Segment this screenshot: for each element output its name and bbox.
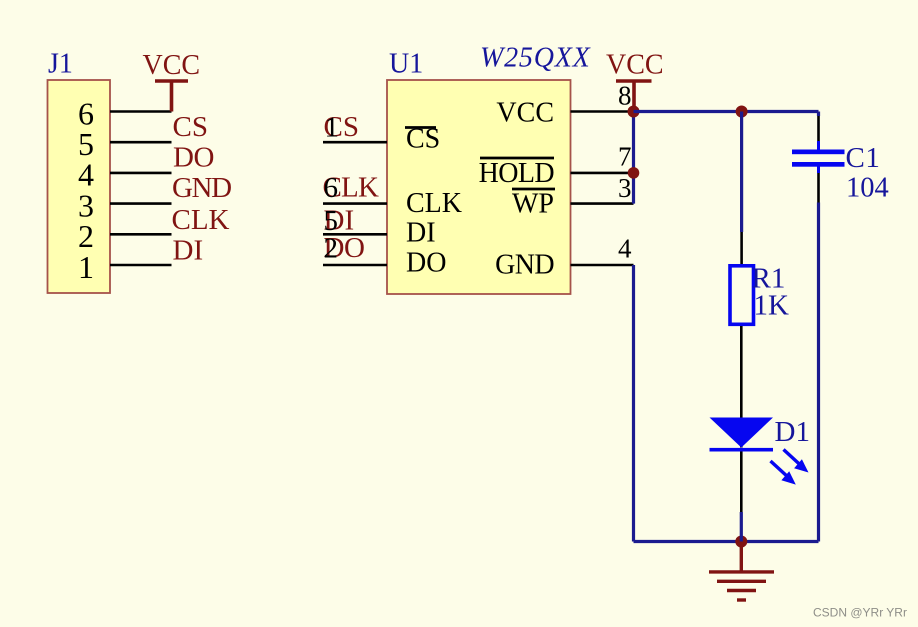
svg-text:DO: DO: [173, 142, 214, 174]
wire J1 pin 5: [110, 141, 172, 144]
svg-text:VCC: VCC: [143, 50, 201, 81]
svg-text:1: 1: [78, 249, 94, 285]
svg-text:GND: GND: [172, 172, 231, 204]
wire DO to U1: [323, 264, 387, 267]
wire C1 bottom branch: [817, 167, 820, 542]
svg-text:1: 1: [325, 111, 340, 143]
wire bottom rail: [634, 540, 819, 543]
junction at pin 7: [628, 167, 640, 179]
resistor R1: [730, 266, 754, 325]
wire top rail VCC: [634, 110, 819, 113]
wire J1 pin 6: [110, 110, 172, 113]
svg-text:GND: GND: [495, 250, 554, 281]
svg-text:VCC: VCC: [606, 50, 664, 81]
svg-text:CLK: CLK: [406, 188, 462, 219]
LED D1: [710, 418, 809, 485]
svg-text:CS: CS: [173, 111, 208, 143]
wire J1 pin 4: [110, 172, 172, 175]
svg-text:W25QXX: W25QXX: [480, 43, 591, 74]
junction bottom rail: [735, 536, 747, 548]
svg-text:CLK: CLK: [172, 204, 230, 236]
connector J1 body: [48, 80, 111, 293]
svg-text:VCC: VCC: [496, 98, 554, 129]
wire DI to U1: [323, 233, 387, 236]
svg-text:CSDN @YRr YRr: CSDN @YRr YRr: [813, 606, 907, 620]
pin name CS (inside U1, with overbar): [405, 124, 440, 155]
svg-text:104: 104: [846, 173, 889, 204]
wire U1 WP pin 3: [571, 202, 634, 205]
wire C1 top branch: [817, 112, 820, 151]
svg-text:1K: 1K: [754, 290, 790, 322]
svg-text:U1: U1: [389, 49, 423, 80]
pin name HOLD (inside U1, with overbar): [479, 158, 555, 189]
svg-text:7: 7: [618, 142, 632, 172]
capacitor C1: [792, 150, 845, 167]
junction top rail: [736, 106, 748, 118]
wire U1 VCC pin 8: [571, 110, 634, 113]
svg-text:WP: WP: [512, 189, 554, 220]
wire CS to U1: [323, 141, 387, 144]
wire GND pin 4 down: [632, 265, 635, 542]
wire U1 HOLD pin 7: [571, 172, 634, 175]
svg-text:D1: D1: [775, 416, 810, 448]
wire R1 top branch: [740, 112, 743, 265]
ground symbol: [709, 542, 774, 601]
svg-text:HOLD: HOLD: [479, 158, 555, 189]
svg-text:8: 8: [618, 81, 632, 111]
IC U1 body: [387, 80, 571, 294]
power symbol VCC (left): [143, 50, 201, 112]
svg-text:6: 6: [324, 172, 339, 204]
svg-text:C1: C1: [846, 142, 881, 174]
wire D1 to bottom rail: [740, 452, 743, 542]
svg-text:DO: DO: [406, 248, 446, 279]
svg-text:3: 3: [618, 173, 632, 203]
wire vertical VCC-HOLD-WP tie: [632, 112, 635, 204]
junction at pin 8: [628, 106, 640, 118]
wire R1 to D1: [740, 326, 743, 448]
wire U1 GND pin 4: [571, 264, 634, 267]
wire J1 pin 1: [110, 264, 172, 267]
svg-text:4: 4: [618, 234, 632, 264]
svg-text:2: 2: [324, 233, 339, 265]
wire J1 pin 2: [110, 233, 172, 236]
wire CLK to U1: [323, 202, 387, 205]
svg-text:DI: DI: [406, 218, 436, 249]
svg-text:J1: J1: [48, 49, 73, 80]
pin name WP (inside U1, with overbar): [512, 189, 555, 220]
power symbol VCC (right): [606, 50, 664, 112]
wire J1 pin 3: [110, 202, 172, 205]
svg-text:DI: DI: [173, 234, 204, 266]
